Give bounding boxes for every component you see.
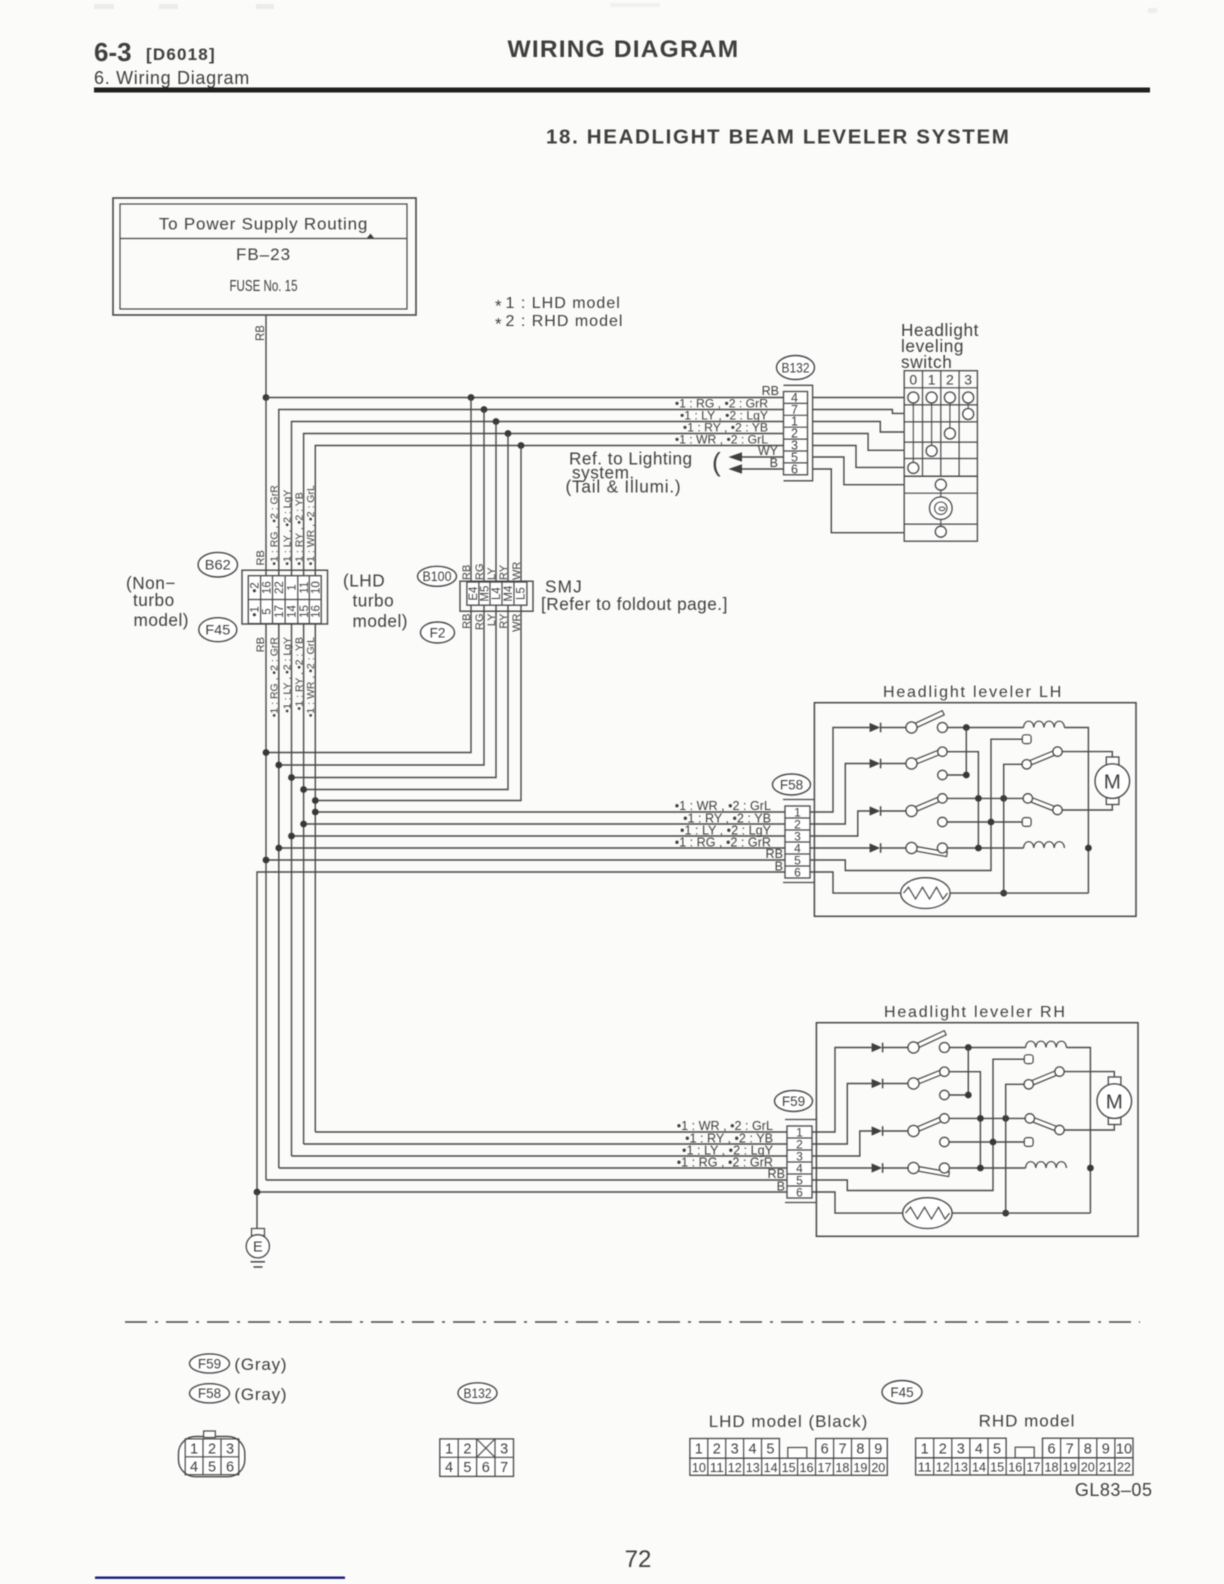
node RG/SMJ join bbox=[275, 762, 282, 769]
connector oval B100 bbox=[418, 566, 457, 586]
svg-text:•2: •2 bbox=[250, 582, 262, 592]
node RB bus junction bbox=[263, 394, 270, 401]
wire RY to F58 pin2 bbox=[304, 823, 785, 825]
svg-text:22: 22 bbox=[274, 581, 286, 594]
svg-text:17: 17 bbox=[274, 605, 286, 618]
svg-text:E: E bbox=[253, 1240, 263, 1256]
B132 face keyway X bbox=[477, 1439, 495, 1457]
svg-text:17: 17 bbox=[817, 1460, 831, 1475]
svg-text:RB: RB bbox=[255, 325, 267, 341]
wire B132 pin5 WY to switch bbox=[813, 457, 905, 485]
svg-text:1: 1 bbox=[445, 1442, 453, 1458]
svg-text:11: 11 bbox=[918, 1460, 932, 1475]
wire B to ground bbox=[256, 1192, 258, 1229]
svg-text:[Refer to foldout page.]: [Refer to foldout page.] bbox=[541, 594, 728, 614]
svg-text:F58: F58 bbox=[780, 777, 803, 792]
svg-text:F58: F58 bbox=[198, 1386, 221, 1401]
svg-text:RHD model: RHD model bbox=[979, 1412, 1076, 1431]
svg-text:(: ( bbox=[712, 447, 721, 477]
svg-text:13: 13 bbox=[954, 1460, 968, 1475]
svg-text:model): model) bbox=[134, 610, 190, 630]
svg-text:4: 4 bbox=[749, 1442, 757, 1458]
svg-text:12: 12 bbox=[936, 1460, 950, 1475]
svg-text:18: 18 bbox=[835, 1460, 849, 1475]
power supply box outer bbox=[113, 198, 416, 315]
svg-text:1: 1 bbox=[921, 1441, 929, 1457]
svg-text:6: 6 bbox=[821, 1442, 829, 1458]
wire LY drop to SMJ L4 bbox=[495, 422, 497, 583]
wire B132 pin4 to switch bbox=[813, 397, 905, 399]
svg-text:5: 5 bbox=[766, 1442, 774, 1458]
svg-text:(Gray): (Gray) bbox=[234, 1355, 287, 1374]
svg-text:1 : LHD model: 1 : LHD model bbox=[506, 295, 621, 312]
legend oval F45 bbox=[882, 1381, 922, 1404]
svg-text:72: 72 bbox=[625, 1546, 652, 1573]
svg-text:L5: L5 bbox=[516, 587, 528, 600]
illumination lamp bbox=[930, 497, 953, 520]
svg-text:•1 : WR , •2 : GrL: •1 : WR , •2 : GrL bbox=[305, 485, 317, 565]
arrow to lighting system pin5 bbox=[741, 456, 784, 458]
svg-text:1: 1 bbox=[695, 1442, 703, 1458]
svg-text:F2: F2 bbox=[430, 625, 446, 640]
wire RY vertical bbox=[303, 624, 305, 1144]
node RY/SMJ join bbox=[300, 786, 307, 793]
legend oval F59 bbox=[190, 1354, 230, 1373]
svg-text:6: 6 bbox=[1048, 1441, 1056, 1457]
svg-text:*: * bbox=[495, 297, 502, 316]
svg-text:1: 1 bbox=[190, 1442, 198, 1458]
svg-text:B: B bbox=[777, 1179, 785, 1193]
svg-text:22: 22 bbox=[1117, 1460, 1131, 1475]
svg-text:Headlight leveler LH: Headlight leveler LH bbox=[883, 684, 1063, 701]
wire SMJ LY down-left bbox=[292, 605, 497, 777]
svg-text:18: 18 bbox=[1044, 1460, 1058, 1475]
svg-text:5: 5 bbox=[262, 608, 274, 614]
svg-text:L4: L4 bbox=[491, 587, 503, 600]
wire B from F58 pin6 down bbox=[257, 872, 785, 1192]
wire WR to F59 pin1 bbox=[315, 1131, 787, 1133]
svg-text:GL83–05: GL83–05 bbox=[1075, 1480, 1153, 1500]
svg-text:WIRING DIAGRAM: WIRING DIAGRAM bbox=[508, 36, 740, 63]
wire LY to F58 pin3 bbox=[292, 835, 786, 837]
svg-text:turbo: turbo bbox=[353, 591, 395, 611]
svg-text:3: 3 bbox=[500, 1442, 508, 1458]
node RB/SMJ join bbox=[263, 749, 270, 756]
svg-text:6: 6 bbox=[226, 1460, 234, 1476]
wire B132 pin2 to switch bbox=[813, 434, 905, 451]
svg-text:6-3: 6-3 bbox=[94, 37, 132, 67]
svg-text:FB–23: FB–23 bbox=[236, 245, 291, 264]
switch lower frame bbox=[904, 476, 977, 541]
svg-text:11: 11 bbox=[299, 582, 311, 594]
wire RB bus to B132 pin 4 bbox=[266, 397, 784, 399]
svg-text:F45: F45 bbox=[890, 1385, 913, 1400]
svg-text:2: 2 bbox=[713, 1442, 721, 1458]
svg-text:10: 10 bbox=[311, 581, 323, 594]
svg-text:B100: B100 bbox=[423, 569, 452, 584]
svg-text:*: * bbox=[495, 315, 502, 334]
svg-text:10: 10 bbox=[1116, 1441, 1132, 1457]
wire WR vertical bbox=[314, 624, 316, 1132]
svg-text:RB: RB bbox=[461, 565, 473, 580]
headlight leveler LH assembly bbox=[783, 703, 1136, 917]
svg-text:B: B bbox=[770, 456, 778, 470]
svg-text:5: 5 bbox=[208, 1460, 216, 1476]
svg-text:6: 6 bbox=[482, 1460, 490, 1476]
svg-text:RB: RB bbox=[255, 550, 267, 565]
svg-text:2: 2 bbox=[208, 1442, 216, 1458]
connector oval F58 bbox=[773, 774, 811, 795]
connector oval B62 bbox=[198, 552, 237, 577]
wire RY drop to SMJ M4 bbox=[507, 434, 509, 583]
node bus3 branch to SMJ bbox=[493, 418, 500, 425]
svg-text:0: 0 bbox=[909, 371, 917, 387]
wire B to F59 pin6 bbox=[257, 1191, 787, 1193]
svg-text:8: 8 bbox=[856, 1442, 864, 1458]
switch selected contacts bbox=[963, 409, 974, 420]
svg-text:17: 17 bbox=[1026, 1460, 1040, 1475]
svg-text:5: 5 bbox=[463, 1460, 471, 1476]
B132 connector face bbox=[440, 1439, 514, 1477]
svg-text:•1 : LY , •2 : LgY: •1 : LY , •2 : LgY bbox=[281, 490, 293, 566]
svg-text:•1 : RY , •2 : YB: •1 : RY , •2 : YB bbox=[293, 492, 305, 565]
svg-text:6: 6 bbox=[791, 462, 798, 476]
svg-text:10: 10 bbox=[692, 1460, 706, 1475]
svg-text:15: 15 bbox=[782, 1460, 796, 1475]
switch grid frame bbox=[904, 371, 977, 477]
svg-text:11: 11 bbox=[710, 1460, 724, 1475]
connector oval F45 bbox=[199, 618, 237, 642]
svg-text:4: 4 bbox=[975, 1441, 983, 1457]
svg-text:•1 : WR , •2 : GrL: •1 : WR , •2 : GrL bbox=[675, 433, 768, 447]
svg-text:14: 14 bbox=[287, 605, 299, 618]
svg-text:B132: B132 bbox=[464, 1386, 492, 1401]
ground connector block bbox=[252, 1229, 265, 1236]
wire SMJ RG down-left bbox=[279, 605, 484, 765]
arrow to lighting system pin6 bbox=[741, 468, 784, 470]
svg-text:E4: E4 bbox=[468, 586, 480, 601]
svg-text:19: 19 bbox=[853, 1460, 867, 1475]
wire B132 pin6 B to switch bbox=[813, 469, 905, 533]
svg-text:B62: B62 bbox=[205, 557, 231, 573]
svg-text:M4: M4 bbox=[503, 585, 515, 602]
svg-text:9: 9 bbox=[874, 1442, 882, 1458]
svg-text:B: B bbox=[775, 859, 783, 873]
wire bus 2 to B132 pin 7 bbox=[279, 410, 784, 576]
wire SMJ RY down-left bbox=[304, 605, 508, 789]
svg-text:LY: LY bbox=[486, 567, 498, 580]
node bus5 branch to SMJ bbox=[518, 442, 525, 449]
svg-text:RY: RY bbox=[498, 564, 510, 580]
svg-text:3: 3 bbox=[226, 1442, 234, 1458]
wire LY to F59 pin3 bbox=[292, 1155, 788, 1157]
node RB branch to SMJ bbox=[468, 394, 475, 401]
svg-text:7: 7 bbox=[500, 1460, 508, 1476]
svg-text:turbo: turbo bbox=[133, 590, 175, 610]
connector B100/F2 pin row bbox=[467, 582, 527, 605]
wire RB from fuse box down bbox=[265, 315, 267, 398]
svg-text:12: 12 bbox=[728, 1460, 742, 1475]
wire RB down to B62 bbox=[265, 398, 267, 576]
svg-text:16: 16 bbox=[311, 605, 323, 618]
svg-text:3: 3 bbox=[957, 1441, 965, 1457]
switch contact stems bbox=[912, 403, 914, 462]
switch bottom contact bbox=[935, 526, 946, 537]
wire B132 pin3 to switch bbox=[813, 446, 905, 468]
svg-text:2: 2 bbox=[939, 1441, 947, 1457]
svg-text:2: 2 bbox=[946, 371, 954, 387]
svg-text:14: 14 bbox=[764, 1460, 778, 1475]
ground hatching bbox=[251, 1261, 266, 1263]
wire bus 5 to B132 pin 3 bbox=[315, 446, 783, 576]
wire RY to F59 pin2 bbox=[304, 1143, 787, 1145]
wire B132 pin7 to switch bbox=[813, 410, 905, 414]
svg-text:[D6018]: [D6018] bbox=[146, 45, 216, 64]
svg-text:•1 : RG , •2 : GrR: •1 : RG , •2 : GrR bbox=[675, 836, 771, 850]
wire bus 3 to B132 pin 1 bbox=[292, 422, 784, 576]
svg-text:FUSE No. 15: FUSE No. 15 bbox=[230, 278, 298, 295]
svg-text:3: 3 bbox=[731, 1442, 739, 1458]
svg-text:M5: M5 bbox=[480, 586, 492, 602]
svg-text:RG: RG bbox=[474, 564, 486, 581]
svg-text:3: 3 bbox=[964, 371, 972, 387]
svg-text:•1 : RG , •2 : GrR: •1 : RG , •2 : GrR bbox=[269, 485, 281, 566]
wire RB drop to SMJ E4 bbox=[470, 398, 472, 583]
node WR/SMJ join bbox=[312, 797, 319, 804]
legend oval B132 bbox=[458, 1383, 497, 1403]
svg-text:5: 5 bbox=[993, 1441, 1001, 1457]
node bus4 branch to SMJ bbox=[505, 430, 512, 437]
svg-text:6. Wiring Diagram: 6. Wiring Diagram bbox=[94, 68, 250, 88]
legend oval F58 bbox=[190, 1384, 230, 1403]
wire RG to F58 pin4 bbox=[279, 847, 785, 849]
svg-text:16: 16 bbox=[1008, 1460, 1022, 1475]
wire SMJ RB down-left bbox=[266, 605, 471, 752]
svg-text:(Tail & Illumi.): (Tail & Illumi.) bbox=[566, 477, 682, 497]
connector oval F59 bbox=[775, 1091, 813, 1112]
svg-text:21: 21 bbox=[1099, 1460, 1113, 1475]
svg-text:13: 13 bbox=[746, 1460, 760, 1475]
connector B100/F2 bracket bbox=[460, 581, 533, 611]
svg-text:7: 7 bbox=[1066, 1441, 1074, 1457]
svg-text:14: 14 bbox=[972, 1460, 986, 1475]
svg-text:model): model) bbox=[353, 611, 409, 631]
wire RB to F58 pin5 bbox=[266, 859, 785, 861]
wire RB to F59 pin5 bbox=[266, 1179, 787, 1181]
connector B62/F45 pin grid bbox=[248, 576, 321, 624]
svg-text:1: 1 bbox=[928, 371, 936, 387]
svg-text:•1 : RG , •2 : GrR: •1 : RG , •2 : GrR bbox=[677, 1156, 773, 1170]
svg-text:15: 15 bbox=[990, 1460, 1004, 1475]
svg-text:F45: F45 bbox=[205, 622, 230, 638]
svg-text:2 : RHD model: 2 : RHD model bbox=[506, 313, 624, 330]
svg-text:19: 19 bbox=[1063, 1460, 1077, 1475]
node bus2 branch to SMJ bbox=[481, 406, 488, 413]
connector oval F2 bbox=[421, 622, 455, 643]
svg-text:4: 4 bbox=[445, 1460, 453, 1476]
svg-text:F59: F59 bbox=[782, 1094, 805, 1109]
svg-text:20: 20 bbox=[871, 1460, 885, 1475]
connector B132 bracket bbox=[784, 385, 813, 481]
svg-text:switch: switch bbox=[901, 352, 952, 372]
svg-text:(Gray): (Gray) bbox=[234, 1385, 287, 1404]
ground terminal E bbox=[246, 1235, 269, 1258]
connector oval B132 bbox=[777, 356, 815, 380]
wire RG to F59 pin4 bbox=[279, 1167, 787, 1169]
svg-text:4: 4 bbox=[190, 1460, 198, 1476]
svg-text:LHD model (Black): LHD model (Black) bbox=[709, 1412, 869, 1431]
connector B62/F45 bracket bbox=[242, 570, 328, 624]
connector B132 pin box bbox=[784, 392, 808, 475]
svg-text:15: 15 bbox=[299, 605, 311, 618]
power supply box inner bbox=[120, 204, 407, 309]
wire WR drop to SMJ L5 bbox=[520, 446, 522, 583]
F58/F59 connector face bbox=[179, 1437, 245, 1477]
wire RG vertical bbox=[278, 624, 280, 1168]
svg-text:9: 9 bbox=[1102, 1441, 1110, 1457]
section separator dash-dot bbox=[125, 1321, 1140, 1323]
svg-text:(LHD: (LHD bbox=[343, 571, 385, 591]
svg-text:Headlight leveler RH: Headlight leveler RH bbox=[884, 1004, 1067, 1021]
wire SMJ WR down-left bbox=[315, 605, 521, 800]
svg-text:•1: •1 bbox=[250, 606, 262, 616]
node B wire junction bbox=[254, 1189, 261, 1196]
svg-text:20: 20 bbox=[1081, 1460, 1095, 1475]
wire RB main vertical bbox=[265, 624, 267, 1180]
F45 LHD connector face bbox=[690, 1439, 780, 1459]
svg-text:B132: B132 bbox=[782, 360, 810, 376]
F45 RHD connector face bbox=[916, 1438, 1007, 1458]
svg-text:8: 8 bbox=[1084, 1441, 1092, 1457]
svg-text:1: 1 bbox=[287, 584, 299, 590]
svg-text:18. HEADLIGHT BEAM LEVELER SY: 18. HEADLIGHT BEAM LEVELER SYSTEM bbox=[546, 126, 1011, 149]
svg-text:To Power Supply Routing: To Power Supply Routing bbox=[159, 215, 368, 234]
svg-text:16: 16 bbox=[262, 581, 274, 594]
power supply box divider bbox=[120, 238, 407, 240]
svg-text:WR: WR bbox=[511, 562, 523, 580]
svg-text:7: 7 bbox=[839, 1442, 847, 1458]
wire B132 pin1 to switch bbox=[813, 422, 905, 433]
wire WR to F58 pin1 bbox=[315, 811, 785, 813]
switch common contact bbox=[935, 479, 946, 490]
headlight leveler RH assembly bbox=[785, 1023, 1138, 1237]
svg-text:2: 2 bbox=[463, 1442, 471, 1458]
bottom blue mark bbox=[95, 1577, 345, 1579]
svg-text:F59: F59 bbox=[198, 1356, 221, 1371]
svg-text:16: 16 bbox=[800, 1460, 814, 1475]
node LY/SMJ join bbox=[288, 774, 295, 781]
switch top contacts bbox=[908, 392, 919, 403]
header rule bbox=[94, 88, 1150, 93]
wire bus 4 to B132 pin 2 bbox=[304, 434, 784, 576]
wire RG drop to SMJ M5 bbox=[483, 410, 485, 583]
wire LY vertical bbox=[291, 624, 293, 1156]
